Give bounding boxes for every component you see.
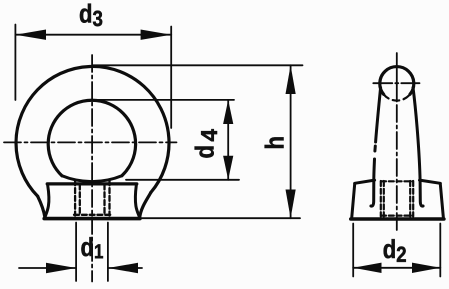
d1 arrow left: [46, 263, 76, 273]
d2 extension line right: [439, 224, 441, 277]
nut bottom edge: [44, 217, 140, 221]
h extension line bottom: [140, 217, 300, 219]
nut top edge: [47, 182, 137, 185]
h arrow top: [286, 65, 296, 94]
d2 arrow right: [412, 263, 440, 273]
nut left side: [45, 185, 49, 217]
d1 extension line right: [107, 223, 109, 282]
shank right edge: [413, 88, 423, 207]
thread hidden line right outer: [108, 180, 110, 215]
thread chamfer hidden line: [74, 214, 111, 216]
h extension line top: [93, 64, 303, 66]
d1 arrow right: [108, 263, 138, 273]
d1 dimension line left: [19, 267, 76, 269]
d2 arrow left: [353, 263, 381, 273]
label d3: [80, 4, 102, 27]
side nut left side: [352, 184, 355, 217]
d1 extension line left: [75, 223, 77, 282]
d3 arrow left: [15, 30, 46, 40]
side nut top edge left: [355, 180, 375, 183]
label h rotated: [265, 137, 284, 148]
side vertical centerline: [396, 53, 398, 102]
side thread hidden right outer: [412, 181, 414, 217]
side nut right side: [440, 184, 443, 217]
shank left edge middle dash: [373, 146, 376, 151]
seat intersection arc: [62, 176, 122, 182]
side ring section circle dashed bottom: [384, 94, 410, 100]
label d1: [81, 237, 103, 258]
side nut bottom edge: [351, 217, 444, 221]
d1 dimension line right: [108, 267, 142, 269]
left fillet ring-to-nut: [38, 196, 45, 217]
nut right side: [135, 185, 139, 217]
horizontal centerline front: [4, 141, 177, 143]
thread hidden line right inner: [103, 185, 105, 216]
h arrow bottom: [286, 190, 296, 219]
label d2: [384, 239, 406, 262]
side nut top edge right: [420, 180, 441, 183]
right fillet ring-to-nut: [140, 193, 151, 218]
side horizontal centerline: [373, 82, 419, 84]
side thread chamfer hidden: [381, 215, 413, 217]
d4 extension line bottom: [126, 179, 239, 181]
label d4 rotated: [195, 129, 217, 157]
d3 extension line right: [170, 27, 172, 129]
d2 extension line left: [352, 224, 354, 277]
side nut top hidden dashed: [381, 180, 413, 182]
d3 dimension line: [15, 34, 171, 36]
d2 dimension line: [353, 267, 440, 269]
d4 dimension line: [227, 100, 229, 180]
d3 arrow right: [141, 30, 172, 40]
h dimension line: [290, 65, 292, 218]
ring outer circle: [16, 66, 169, 196]
d4 extension line top: [93, 99, 235, 101]
side ring section circle solid top: [380, 67, 414, 95]
shank left edge lower: [371, 159, 375, 206]
side thread hidden left outer: [380, 181, 382, 217]
thread hidden line left outer: [74, 180, 76, 215]
d4 arrow bottom: [223, 156, 233, 180]
ring inner circle: [48, 100, 135, 176]
vertical centerline front: [91, 55, 93, 282]
thread hidden line left inner: [79, 185, 81, 216]
side thread hidden right inner: [409, 181, 411, 217]
side thread hidden left inner: [383, 181, 385, 217]
d3 extension line left: [14, 25, 16, 101]
d4 arrow top: [223, 100, 233, 124]
shank left edge upper: [376, 88, 381, 143]
